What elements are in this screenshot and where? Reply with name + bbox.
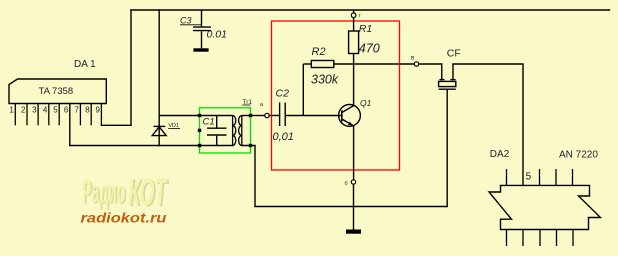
wire node v to CF [419, 64, 442, 79]
diode VD1 [152, 126, 166, 135]
terminal g [351, 13, 356, 18]
wire vertical from top rail to pin 9 [101, 10, 131, 125]
svg-text:г: г [359, 13, 361, 19]
DA1 pin 5 lead [58, 104, 60, 126]
DA1 pin 9 lead [100, 104, 102, 126]
IC DA2 top pins [507, 169, 573, 185]
capacitor C2 [280, 103, 286, 127]
svg-text:8: 8 [85, 106, 90, 115]
wire C2 to Q1 base [285, 115, 342, 117]
ground bar C3 [193, 48, 208, 51]
DA2 bottom pin lead 3 [539, 230, 541, 247]
svg-text:CF: CF [447, 48, 461, 60]
DA2 bottom pin lead 5 [572, 230, 574, 247]
transformer Tr1 primary winding [233, 116, 236, 146]
DA1 pin 3 lead [37, 104, 39, 126]
svg-text:DA2: DA2 [490, 149, 510, 160]
ground bar [346, 230, 361, 234]
svg-text:Радио: Радио [83, 174, 126, 210]
module pin squares [198, 114, 252, 147]
watermark RadioKOT [83, 172, 170, 215]
svg-text:9: 9 [95, 106, 100, 115]
wire top rail [131, 9, 610, 11]
svg-text:1: 1 [9, 106, 14, 115]
IC DA1 TA7358 body [9, 79, 106, 104]
red highlight box [272, 21, 400, 170]
module pin square top-right [249, 114, 252, 117]
svg-text:6: 6 [64, 106, 69, 115]
wire transformer secondary bottom to lower rail [242, 146, 447, 207]
DA1 pin 1 lead [14, 104, 16, 126]
module pin square bottom-right [249, 144, 252, 147]
resistor R2 [303, 61, 334, 116]
svg-text:Q1: Q1 [360, 98, 372, 108]
svg-text:2: 2 [21, 106, 26, 115]
svg-text:C3: C3 [180, 15, 192, 25]
svg-text:R2: R2 [312, 46, 326, 58]
DA2 bottom pin lead 1 [506, 230, 508, 247]
wire emitter to ground [353, 184, 355, 229]
svg-text:AN 7220: AN 7220 [559, 150, 598, 161]
DA2 top pin lead 5 [572, 169, 574, 185]
svg-text:DA 1: DA 1 [74, 59, 96, 70]
wire green box to node a [251, 115, 265, 117]
DA2 bottom pin lead 4 [556, 230, 558, 247]
svg-text:TA 7358: TA 7358 [39, 86, 74, 97]
wire vertical x159 top rail to diode [158, 10, 160, 146]
DA1 pin 7 lead [79, 104, 81, 126]
transistor Q1 [339, 64, 361, 180]
wire R2 output rail y64 [334, 63, 415, 65]
transformer Tr1 secondary winding [239, 116, 242, 146]
DA2 bottom pin lead 2 [522, 230, 524, 247]
wire pin6 to bottom rail [70, 104, 233, 146]
green module box [200, 108, 251, 153]
capacitor C3 [193, 10, 211, 48]
module pin square mid-left [198, 129, 201, 132]
DA1 pin 4 lead [48, 104, 50, 126]
module pin square bottom-left [198, 144, 201, 147]
node a terminal [265, 113, 269, 117]
DA1 pin 2 lead [26, 104, 28, 126]
ceramic filter CF [439, 64, 456, 207]
svg-text:C1: C1 [203, 116, 215, 127]
svg-text:б: б [345, 181, 348, 187]
IC DA1 pin leads [15, 104, 101, 126]
svg-text:3: 3 [32, 106, 37, 115]
resistor R1 [349, 10, 359, 64]
DA2 top pin lead 3 [539, 169, 541, 185]
module pin square top-left [198, 114, 201, 117]
svg-text:C2: C2 [276, 88, 290, 100]
svg-text:5: 5 [526, 172, 532, 183]
svg-text:R1: R1 [359, 23, 372, 35]
svg-text:КОТ: КОТ [128, 172, 167, 214]
wire inside green box top [200, 115, 251, 117]
svg-text:7: 7 [74, 106, 79, 115]
wire y115 diode line to green box [159, 115, 199, 117]
wire node a to C2 [269, 115, 279, 117]
svg-text:330k: 330k [311, 73, 339, 87]
svg-text:5: 5 [53, 106, 58, 115]
svg-text:в: в [411, 56, 414, 62]
DA2 top pin lead 1 [506, 169, 508, 185]
DA2 top pin lead 4 [555, 169, 557, 185]
svg-text:radiokot.ru: radiokot.ru [81, 211, 168, 226]
IC DA2 AN7220 torn body [489, 185, 601, 229]
svg-text:470: 470 [359, 41, 380, 55]
terminal b (emitter) [351, 180, 355, 184]
svg-text:0,01: 0,01 [273, 131, 294, 143]
DA1 pin 8 lead [90, 104, 92, 126]
wire CF right lead to DA2 pin [453, 64, 523, 185]
terminal v (output) [414, 62, 418, 66]
capacitor C1 [207, 116, 227, 146]
svg-text:4: 4 [43, 106, 48, 115]
IC DA2 bottom pins [507, 230, 574, 247]
svg-text:0.01: 0.01 [207, 29, 227, 41]
IC DA1 pin numbers [9, 106, 100, 115]
